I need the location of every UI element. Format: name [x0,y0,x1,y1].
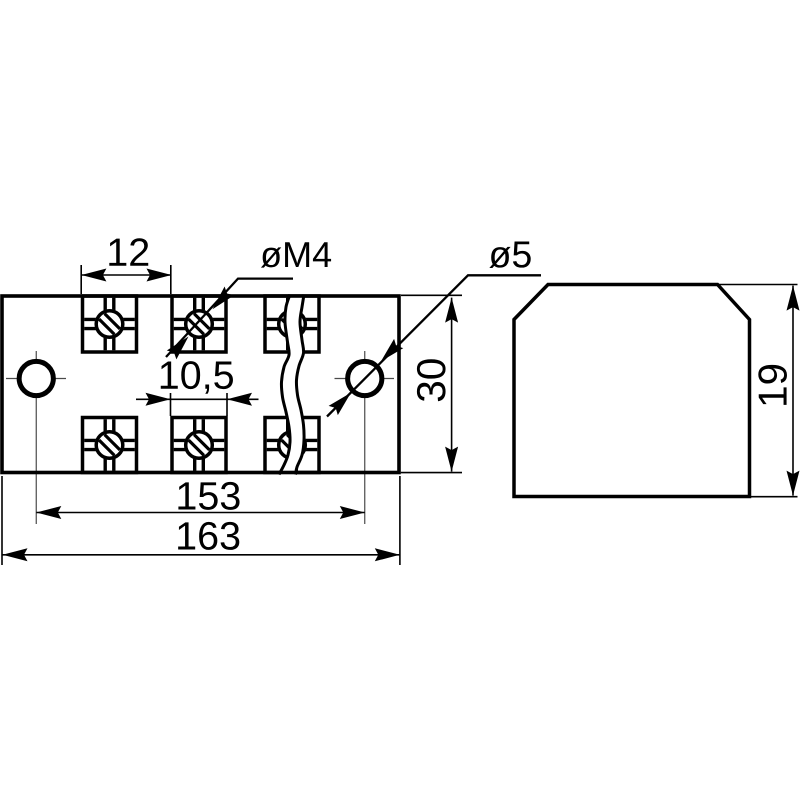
arrowheads dim 19 [787,286,800,311]
dimension 153: dimension line [36,512,365,514]
text 19 [758,365,787,405]
text 30 [417,359,446,401]
text 12 [109,238,148,266]
dimension 163: dimension line [3,554,400,556]
dimension 10,5: dimension line [136,398,259,400]
arrowheads dim 10,5 [146,393,171,406]
mounting hole H1 (left, ø5) [19,361,53,395]
text 153 [178,482,239,510]
arrowheads øM4 leader [208,286,234,313]
mounting hole H1 centerlines (left) [6,351,66,524]
dimension 163: extension lines [1,476,3,565]
terminal T4 (bottom row, col 1) [83,418,137,473]
break line band (torn section) [279,295,304,475]
terminal T6 (bottom row, col 3, crossed by break) [265,418,319,473]
text 10,5 [161,361,233,394]
dimension 10,5: extension lines [170,393,172,416]
dimension 12: dimension line [81,274,171,276]
dimension 12: extension lines [80,265,82,294]
side view body outline [514,285,750,497]
arrowheads dim 163 [3,548,28,561]
leader line for hole ø5 callout [327,275,541,416]
mounting hole H2 (right, ø5) [348,361,382,395]
text 163 [178,522,239,550]
arrowheads dim 12 [81,269,106,282]
dimension 30: extension lines [401,294,462,296]
text oM4 [261,242,331,267]
terminal T2 (top row, col 2) [172,296,226,352]
front view plate outline [2,296,399,473]
arrowheads ø5 leader [376,339,403,366]
terminal T1 (top row, col 1) [83,296,137,352]
dimension 30: dimension line [451,298,453,472]
arrowheads dim 30 [445,298,458,323]
dimension 19: dimension line [792,286,794,496]
mounting hole H2 centerlines (right) [335,351,395,524]
terminal T3 (top row, col 3, crossed by break) [265,296,319,352]
arrowheads dim 153 [36,506,61,519]
leader line for M4 screw callout [166,279,293,357]
dimension 19: extension lines [718,284,798,286]
terminal T5 (bottom row, col 2) [172,418,226,473]
text o5 [489,241,530,268]
